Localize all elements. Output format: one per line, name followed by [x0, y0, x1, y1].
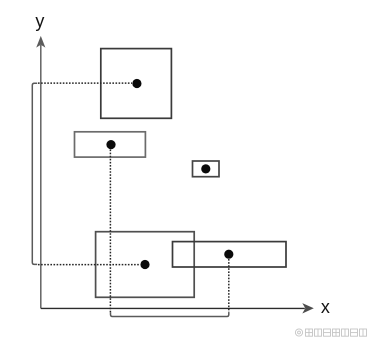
x-axis arrowhead — [302, 303, 314, 313]
rect R3 (small rect right) — [193, 161, 220, 177]
y-range bracket (left) — [32, 83, 37, 264]
y-axis — [40, 45, 42, 308]
rect R5 (wide bottom rect, overlaps R4) — [173, 242, 287, 267]
rect R1 (top square) — [101, 49, 172, 119]
center dot D1 — [132, 79, 141, 88]
center dot D4 — [140, 260, 149, 269]
center dot D2 — [106, 140, 115, 149]
dotted projection line from D1 to y bracket — [38, 82, 132, 84]
dotted projection line from D2 down to x bracket — [109, 150, 111, 313]
watermark "@稀土掘金技术社区" drawn as faint glyph blocks — [295, 329, 366, 336]
dotted projection line from D4 to y bracket — [38, 264, 140, 266]
dotted projection line from D5 down to x bracket — [228, 259, 230, 312]
rect R4 (big bottom rect) — [96, 232, 195, 298]
center dot D5 — [224, 250, 233, 259]
rect R2 (flat rect left) — [75, 132, 146, 157]
x-axis — [41, 307, 305, 309]
x-range bracket (bottom) — [111, 312, 229, 316]
y-axis arrowhead — [36, 36, 45, 48]
center dot D3 — [201, 164, 210, 173]
svg-text:x: x — [321, 297, 330, 317]
svg-text:y: y — [35, 11, 44, 31]
